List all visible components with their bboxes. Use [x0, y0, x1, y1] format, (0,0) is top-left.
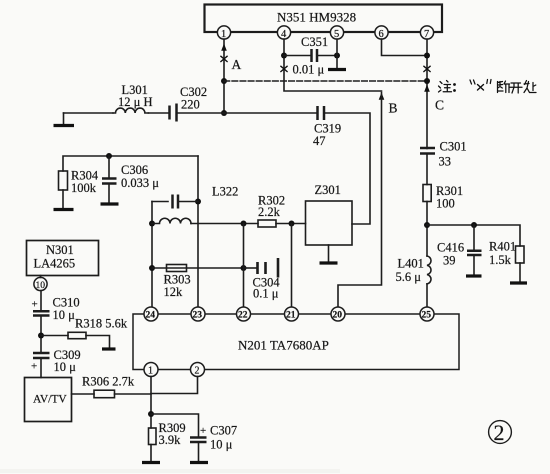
svg-text:21: 21 — [286, 311, 296, 321]
scan streak bottom — [0, 469, 340, 473]
wire R304/C306 top rail — [63, 156, 198, 171]
junction dot R303 right — [241, 265, 247, 271]
note text: chu — [524, 81, 536, 93]
inductor L401 — [396, 256, 432, 284]
svg-text:+: + — [31, 361, 37, 373]
junction dot tank coil left — [149, 221, 155, 227]
wire pin7 down — [426, 39, 428, 148]
wire R301 down to L401 — [426, 202, 428, 257]
svg-text:A: A — [232, 57, 242, 72]
resistor R303 — [152, 265, 244, 300]
junction dot x243 — [241, 221, 247, 227]
svg-text:39: 39 — [443, 254, 456, 268]
resistor R304 — [59, 169, 99, 196]
svg-text:5.6 μ: 5.6 μ — [396, 270, 422, 284]
svg-text:C351: C351 — [301, 35, 328, 49]
resistor R302 — [258, 194, 285, 228]
capacitor C309 — [31, 348, 81, 374]
wire C309 to AV/TV — [40, 358, 42, 378]
svg-text:10 μ: 10 μ — [210, 438, 233, 452]
ground (Z301) — [320, 261, 338, 264]
capacitor C307 — [151, 414, 237, 461]
wire C319 to Z301 right — [324, 113, 370, 224]
resistor R301 — [423, 184, 463, 211]
wire C302 to C319 — [177, 112, 317, 114]
junction dot pin6/pin7 — [424, 53, 430, 59]
svg-text:2: 2 — [195, 366, 200, 377]
pin 5 (N351) — [330, 26, 343, 40]
x break mark on pin7 wire — [424, 66, 430, 71]
svg-text:+: + — [32, 299, 38, 311]
svg-text:N351 HM9328: N351 HM9328 — [277, 10, 356, 25]
ground (C306) — [101, 202, 119, 205]
svg-text:100k: 100k — [71, 181, 97, 195]
svg-text:C307: C307 — [210, 424, 237, 438]
wire tank left vertical to pin 24 — [151, 202, 153, 308]
pin 1 (N351) — [217, 26, 230, 40]
note text: fullwidth colon — [453, 83, 456, 92]
junction dot C307 branch — [148, 411, 154, 417]
pin 21 (N201) — [285, 307, 299, 321]
svg-text:10 μ: 10 μ — [53, 308, 76, 322]
capacitor C301 — [420, 140, 467, 169]
svg-text:12k: 12k — [164, 285, 184, 299]
wire R304 to ground — [62, 190, 64, 208]
capacitor of L322 tank — [152, 195, 198, 209]
svg-text:20: 20 — [333, 311, 343, 321]
svg-text:10: 10 — [36, 281, 46, 291]
resistor R306 — [72, 375, 152, 398]
svg-text:0.1 μ: 0.1 μ — [253, 287, 279, 301]
wire R302 to Z301 — [276, 223, 306, 225]
wire to C416 and R401 — [427, 225, 520, 246]
capacitor C351 — [284, 35, 337, 77]
pin 10 (N301) — [34, 277, 47, 291]
svg-text:24: 24 — [146, 311, 156, 321]
note text: zhu — [439, 81, 452, 93]
arrowhead up on B line — [379, 93, 385, 100]
resistor R318 — [41, 317, 128, 348]
figure number 2 — [489, 420, 512, 445]
pin 24 (N201) — [144, 307, 158, 321]
junction dot R301/C416 wire — [424, 222, 430, 228]
wire pin2 (N201) down-left — [151, 377, 198, 394]
svg-text:2: 2 — [494, 420, 505, 445]
note text: close quote — [487, 80, 491, 84]
wire x291 down to pin 21 — [291, 224, 293, 308]
capacitor C302 — [170, 85, 208, 122]
pin 20 (N201) — [331, 307, 345, 321]
pin 25 (N201) — [420, 307, 434, 321]
svg-text:AV/TV: AV/TV — [33, 394, 67, 406]
junction dot pin5/C351 — [334, 53, 340, 59]
svg-text:R401: R401 — [489, 240, 516, 254]
svg-text:47: 47 — [313, 134, 326, 148]
resistor R309 — [149, 421, 186, 447]
svg-text:L322: L322 — [212, 185, 238, 199]
pin 23 (N201) — [191, 307, 205, 321]
svg-text:33: 33 — [439, 155, 452, 169]
svg-text:N301: N301 — [46, 243, 74, 257]
ground (left of L301) — [54, 113, 75, 126]
wire L401 to pin 25 — [426, 284, 428, 308]
capacitor C416 — [437, 225, 482, 275]
svg-text:1.5k: 1.5k — [489, 253, 512, 267]
svg-text:10 μ: 10 μ — [54, 360, 77, 374]
svg-text:0.01 μ: 0.01 μ — [293, 63, 325, 77]
resistor R401 — [489, 240, 524, 268]
dashed line A to C — [224, 80, 427, 82]
svg-text:+: + — [200, 425, 206, 437]
IC N201 TA7680AP box — [133, 314, 459, 370]
junction dot pin7/dashed — [424, 78, 430, 84]
junction dot tank cap right — [195, 199, 201, 205]
wire pin1 (N201) down — [150, 377, 152, 461]
ground (R304) — [54, 208, 74, 211]
svg-text:R306 2.7k: R306 2.7k — [82, 375, 135, 389]
svg-text:L401: L401 — [398, 257, 424, 271]
wire L301 to C302 — [148, 112, 168, 114]
junction dot x291 — [289, 221, 295, 227]
IC N351 HM9328 box — [205, 5, 443, 33]
pin 1 (N201 bottom) — [144, 363, 158, 377]
ground (R401) — [510, 281, 527, 284]
svg-text:100: 100 — [436, 197, 455, 211]
junction dot pin1/main wire — [221, 110, 227, 116]
wire pin1 vertical — [223, 39, 225, 113]
ground (R309) — [142, 461, 160, 464]
svg-text:3.9k: 3.9k — [159, 433, 182, 447]
junction dot pin1/dashed — [221, 78, 227, 84]
svg-text:2.2k: 2.2k — [258, 205, 281, 219]
ground (pin 5) — [328, 68, 346, 71]
junction dot R318 — [38, 333, 44, 339]
wire vertical x198 to pin 23 — [197, 156, 199, 308]
note text: kai — [510, 83, 523, 93]
ground (C416) — [466, 274, 482, 277]
svg-text:220: 220 — [181, 98, 200, 112]
ground (C307) — [190, 461, 208, 464]
IC N301 LA4265 box — [27, 241, 99, 276]
capacitor C310 — [32, 296, 80, 323]
svg-text:LA4265: LA4265 — [34, 257, 76, 271]
note text: open quote — [470, 80, 475, 84]
junction dot R303 left — [149, 265, 155, 271]
arrowhead up on C line — [424, 85, 430, 92]
capacitor C306 — [102, 156, 159, 202]
junction dot C416 — [471, 222, 477, 228]
svg-text:12 μ H: 12 μ H — [118, 95, 152, 109]
wire x243 down to pin 22 — [243, 224, 245, 308]
svg-text:C301: C301 — [440, 140, 467, 154]
wire C301 to R301 — [426, 154, 428, 185]
svg-text:C306: C306 — [121, 163, 148, 177]
ceramic filter Z301 — [306, 183, 353, 245]
capacitor C304 — [244, 258, 281, 301]
inductor L301 — [113, 83, 152, 113]
wire Z301 to ground — [328, 245, 330, 262]
svg-text:22: 22 — [238, 311, 248, 321]
svg-text:1: 1 — [148, 366, 153, 377]
wire C310 to C309 — [40, 316, 42, 354]
pin 7 (N351) — [420, 26, 433, 40]
ground (R318) — [102, 347, 116, 350]
svg-text:C416: C416 — [437, 241, 464, 255]
AV/TV box — [25, 378, 72, 422]
wire R401 to ground — [519, 263, 521, 282]
wire pin4 down and right — [284, 39, 382, 91]
wire B line down to pin 20 — [338, 93, 382, 308]
svg-text:B: B — [389, 101, 398, 116]
wire pin6 down to pin7 line — [382, 39, 428, 55]
svg-text:25: 25 — [422, 311, 432, 321]
junction dot pin4/C351 — [281, 53, 287, 59]
svg-text:Z301: Z301 — [315, 183, 341, 197]
pin 2 (N201 bottom) — [191, 363, 205, 377]
x break mark on pin1 wire — [221, 56, 227, 61]
note text: duan — [498, 81, 510, 93]
x break mark on pin4 wire — [281, 66, 287, 71]
pin 4 (N351) — [277, 26, 290, 40]
svg-text:R318 5.6k: R318 5.6k — [75, 317, 128, 331]
wire main horizontal left — [64, 112, 114, 114]
wire coil to R302 — [191, 223, 258, 225]
wire pin10 to C310 — [40, 276, 43, 311]
pin 22 (N201) — [237, 307, 251, 321]
inductor of L322 tank — [152, 218, 191, 223]
note text: x mark — [478, 85, 484, 91]
capacitor C319 — [313, 106, 341, 148]
svg-text:23: 23 — [193, 311, 203, 321]
arrowhead up on pin1 wire — [221, 44, 227, 51]
svg-text:0.033 μ: 0.033 μ — [121, 176, 159, 190]
pin 6 (N351) — [375, 26, 388, 40]
svg-text:N201 TA7680AP: N201 TA7680AP — [238, 338, 329, 353]
wire pin5 down — [336, 39, 338, 68]
junction dot C306 — [106, 153, 112, 159]
svg-text:C: C — [435, 98, 444, 113]
